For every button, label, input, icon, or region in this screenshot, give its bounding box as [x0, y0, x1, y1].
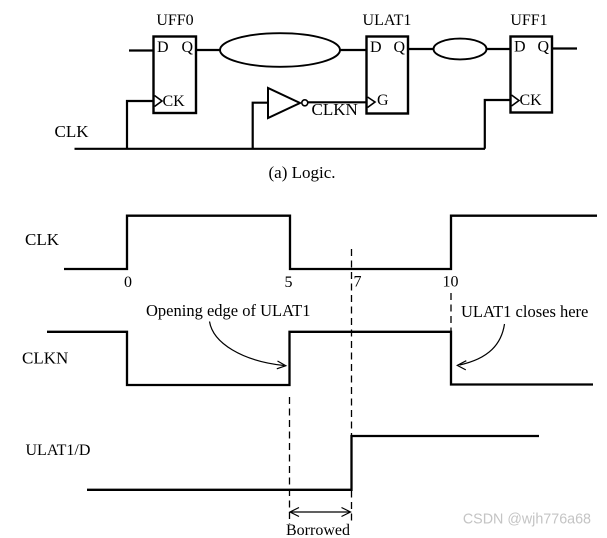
- caption (a) Logic.: [269, 163, 336, 182]
- annotation: Opening edge of ULAT1: [146, 301, 311, 320]
- svg-text:CLKN: CLKN: [22, 349, 68, 368]
- pin CK (UFF1): [512, 92, 543, 109]
- svg-text:D: D: [157, 39, 169, 56]
- CLKN waveform: [47, 332, 593, 385]
- flip-flop UFF0: [154, 37, 197, 114]
- svg-text:(a) Logic.: (a) Logic.: [269, 163, 336, 182]
- svg-text:CSDN @wjh776a68: CSDN @wjh776a68: [463, 512, 591, 528]
- svg-text:CLK: CLK: [25, 230, 60, 249]
- label ULAT1: [363, 12, 412, 29]
- pin Q (UFF0): [181, 39, 193, 56]
- svg-text:Q: Q: [393, 39, 405, 56]
- svg-text:ULAT1: ULAT1: [363, 12, 412, 29]
- label ULAT1/D: [26, 442, 91, 459]
- CLK waveform: [64, 216, 597, 269]
- label CLKN (waveform): [22, 349, 68, 368]
- svg-text:UFF1: UFF1: [510, 12, 547, 29]
- pin Q (UFF1): [537, 39, 549, 56]
- svg-text:Borrowed: Borrowed: [286, 522, 350, 538]
- svg-text:ULAT1/D: ULAT1/D: [26, 442, 91, 459]
- curved arrow to closing edge: [457, 324, 504, 370]
- pin D (UFF0): [157, 39, 169, 56]
- svg-text:G: G: [377, 92, 389, 109]
- svg-text:D: D: [514, 39, 526, 56]
- svg-text:CLK: CLK: [55, 122, 90, 141]
- label CLK (waveform): [25, 230, 60, 249]
- svg-text:Opening edge of ULAT1: Opening edge of ULAT1: [146, 301, 311, 320]
- svg-text:5: 5: [285, 274, 293, 291]
- combinational cloud (large ellipse): [220, 33, 340, 67]
- pin CK (UFF0): [155, 93, 186, 110]
- svg-text:0: 0: [124, 274, 132, 291]
- svg-text:CK: CK: [520, 92, 543, 109]
- dashed line at t=5 (borrow start): [289, 397, 291, 524]
- wire UFF0 Q to cloud: [196, 49, 221, 51]
- svg-text:ULAT1 closes here: ULAT1 closes here: [461, 302, 588, 321]
- time label 0: [124, 274, 132, 291]
- pin Q (ULAT1): [393, 39, 405, 56]
- wire CLK rail: [75, 148, 486, 150]
- svg-text:Q: Q: [537, 39, 549, 56]
- small combinational cloud (ellipse): [434, 39, 487, 60]
- annotation: ULAT1 closes here: [461, 302, 588, 321]
- latch ULAT1: [367, 37, 409, 114]
- wire CLK to UFF1 CK: [485, 100, 511, 149]
- wire ULAT1 Q to small cloud: [408, 48, 434, 50]
- wire small cloud to UFF1 D: [486, 48, 511, 50]
- wire UFF0 D input: [129, 49, 154, 51]
- label UFF0: [156, 12, 193, 29]
- wire UFF1 Q output: [552, 47, 577, 49]
- pin D (UFF1): [514, 39, 526, 56]
- watermark: [463, 512, 591, 528]
- svg-text:CK: CK: [163, 93, 186, 110]
- inverter: [268, 88, 308, 118]
- svg-text:10: 10: [443, 274, 459, 291]
- svg-text:UFF0: UFF0: [156, 12, 193, 29]
- label CLKN: [312, 100, 358, 119]
- label Borrowed: [286, 522, 350, 538]
- wire inverter input: [253, 103, 268, 149]
- svg-text:7: 7: [354, 274, 362, 291]
- flip-flop UFF1: [511, 37, 553, 113]
- label CLK (schematic): [55, 122, 90, 141]
- curved arrow to opening edge: [210, 322, 286, 369]
- pin G (ULAT1): [368, 92, 390, 109]
- label UFF1: [510, 12, 547, 29]
- borrowed interval double arrow: [290, 508, 351, 517]
- wire CLKN (inverter output to ULAT1 G): [308, 101, 367, 103]
- pin D (ULAT1): [370, 39, 382, 56]
- dashed line at t=7: [351, 249, 353, 524]
- wire CLK to UFF0 CK: [127, 101, 154, 149]
- ULAT1/D waveform: [87, 436, 539, 490]
- wire cloud to ULAT1 D: [340, 49, 367, 51]
- dashed line at t=10: [450, 293, 452, 331]
- time label 5: [285, 274, 293, 291]
- time label 7: [354, 274, 362, 291]
- svg-text:Q: Q: [181, 39, 193, 56]
- time label 10: [443, 274, 459, 291]
- svg-text:D: D: [370, 39, 382, 56]
